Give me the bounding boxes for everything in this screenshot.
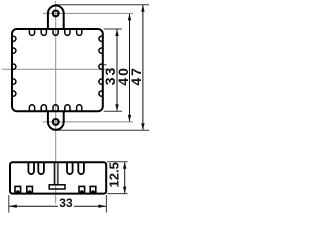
svg-text:47: 47 (128, 66, 144, 86)
svg-text:33: 33 (59, 196, 73, 210)
svg-text:12.5: 12.5 (107, 162, 122, 187)
